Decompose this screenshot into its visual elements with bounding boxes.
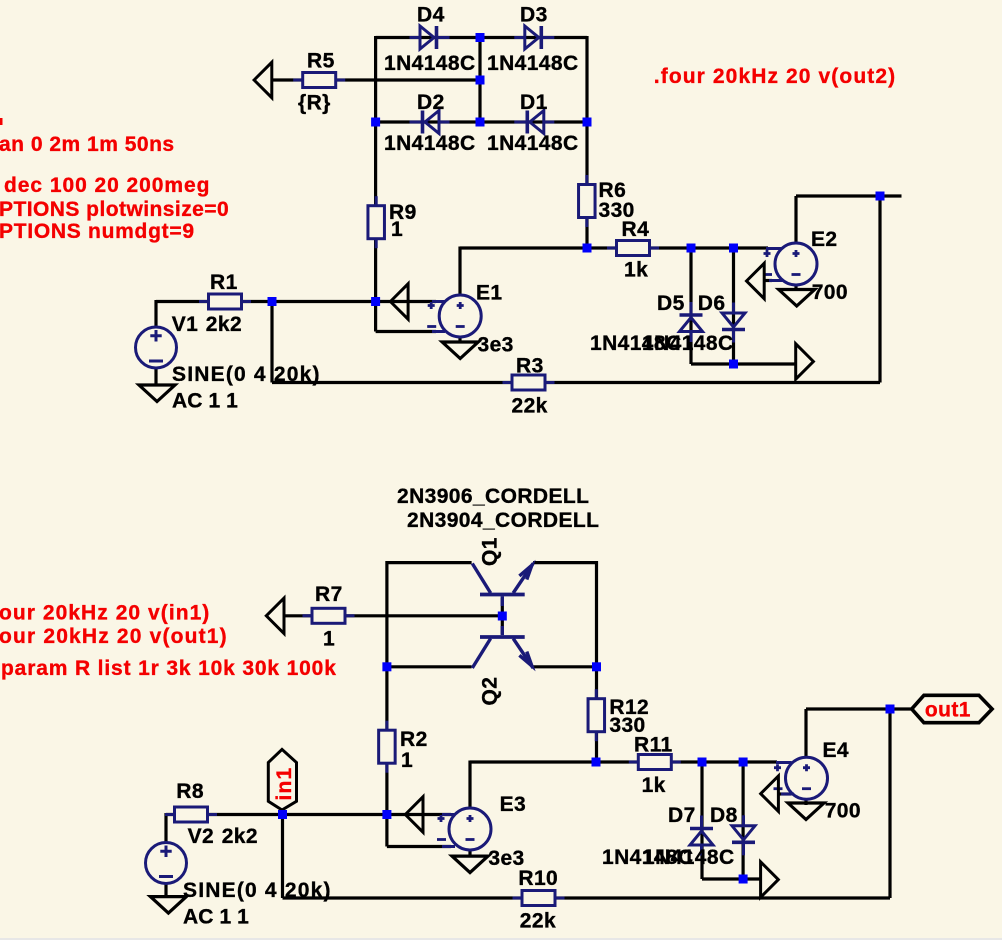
- svg-text:1: 1: [323, 628, 335, 651]
- svg-text:D3: D3: [520, 4, 548, 27]
- svg-text:700: 700: [812, 281, 848, 304]
- svg-text:1k: 1k: [642, 774, 666, 797]
- svg-text:R11: R11: [634, 734, 673, 757]
- svg-text:in1: in1: [273, 767, 296, 801]
- svg-text:2N3906_CORDELL: 2N3906_CORDELL: [397, 485, 589, 508]
- svg-text:E1: E1: [476, 282, 503, 305]
- svg-text:1N4148C: 1N4148C: [487, 132, 579, 155]
- svg-text:AC 1 1: AC 1 1: [183, 906, 249, 929]
- svg-text:D1: D1: [520, 91, 548, 114]
- svg-text:PTIONS plotwinsize=0: PTIONS plotwinsize=0: [0, 198, 229, 221]
- svg-text:D6: D6: [698, 292, 726, 315]
- svg-text:1N4148C: 1N4148C: [384, 132, 476, 155]
- svg-text:PTIONS numdgt=9: PTIONS numdgt=9: [0, 220, 195, 243]
- svg-text:3e3: 3e3: [478, 334, 514, 357]
- svg-text:D5: D5: [657, 292, 685, 315]
- svg-text:2N3904_CORDELL: 2N3904_CORDELL: [407, 509, 599, 532]
- svg-text:V2: V2: [188, 825, 215, 848]
- svg-text:param R list 1r 3k 10k 30k 100: param R list 1r 3k 10k 30k 100k: [1, 657, 337, 680]
- svg-text:D8: D8: [710, 804, 738, 827]
- svg-text:our 20kHz 20 v(in1): our 20kHz 20 v(in1): [0, 602, 210, 625]
- svg-text:D4: D4: [417, 4, 445, 27]
- svg-text:22k: 22k: [520, 910, 556, 933]
- svg-text:D2: D2: [417, 91, 445, 114]
- svg-text:D7: D7: [668, 804, 696, 827]
- svg-text:R7: R7: [315, 583, 343, 606]
- svg-text:1k: 1k: [624, 259, 648, 282]
- svg-text:22k: 22k: [512, 395, 548, 418]
- svg-text:2k2: 2k2: [206, 313, 242, 336]
- svg-text:R4: R4: [622, 218, 650, 241]
- svg-text:SINE(0 4 20k): SINE(0 4 20k): [172, 363, 321, 386]
- svg-text:R2: R2: [400, 728, 428, 751]
- svg-text:R5: R5: [307, 50, 335, 73]
- svg-text:Q2: Q2: [479, 677, 502, 706]
- svg-text:1: 1: [401, 749, 413, 772]
- svg-text:{R}: {R}: [298, 92, 331, 115]
- svg-text:R1: R1: [210, 271, 238, 294]
- svg-text:our 20kHz 20 v(out1): our 20kHz 20 v(out1): [0, 625, 228, 648]
- svg-text:out1: out1: [925, 699, 971, 722]
- svg-text:E3: E3: [500, 793, 526, 816]
- svg-text:1N4148C: 1N4148C: [487, 52, 579, 75]
- svg-text:1N4148C: 1N4148C: [384, 52, 476, 75]
- svg-text:1N4148C: 1N4148C: [642, 332, 734, 355]
- svg-text:R3: R3: [516, 355, 544, 378]
- svg-text:700: 700: [825, 800, 861, 823]
- svg-text:V1: V1: [172, 313, 199, 336]
- svg-text:R8: R8: [176, 780, 204, 803]
- svg-text:SINE(0 4 20k): SINE(0 4 20k): [183, 879, 332, 902]
- svg-text:E2: E2: [811, 228, 838, 251]
- svg-text:Q1: Q1: [479, 537, 502, 566]
- svg-text:.four 20kHz 20 v(out2): .four 20kHz 20 v(out2): [654, 65, 896, 88]
- svg-text:dec 100 20 200meg: dec 100 20 200meg: [4, 174, 210, 197]
- svg-text:R10: R10: [518, 867, 558, 890]
- svg-text:an 0 2m 1m 50ns: an 0 2m 1m 50ns: [0, 133, 175, 156]
- svg-text:1: 1: [391, 218, 403, 241]
- svg-text:2k2: 2k2: [222, 825, 258, 848]
- svg-text:AC 1 1: AC 1 1: [172, 390, 238, 413]
- svg-text:1N4148C: 1N4148C: [643, 846, 735, 869]
- svg-text:E4: E4: [823, 739, 850, 762]
